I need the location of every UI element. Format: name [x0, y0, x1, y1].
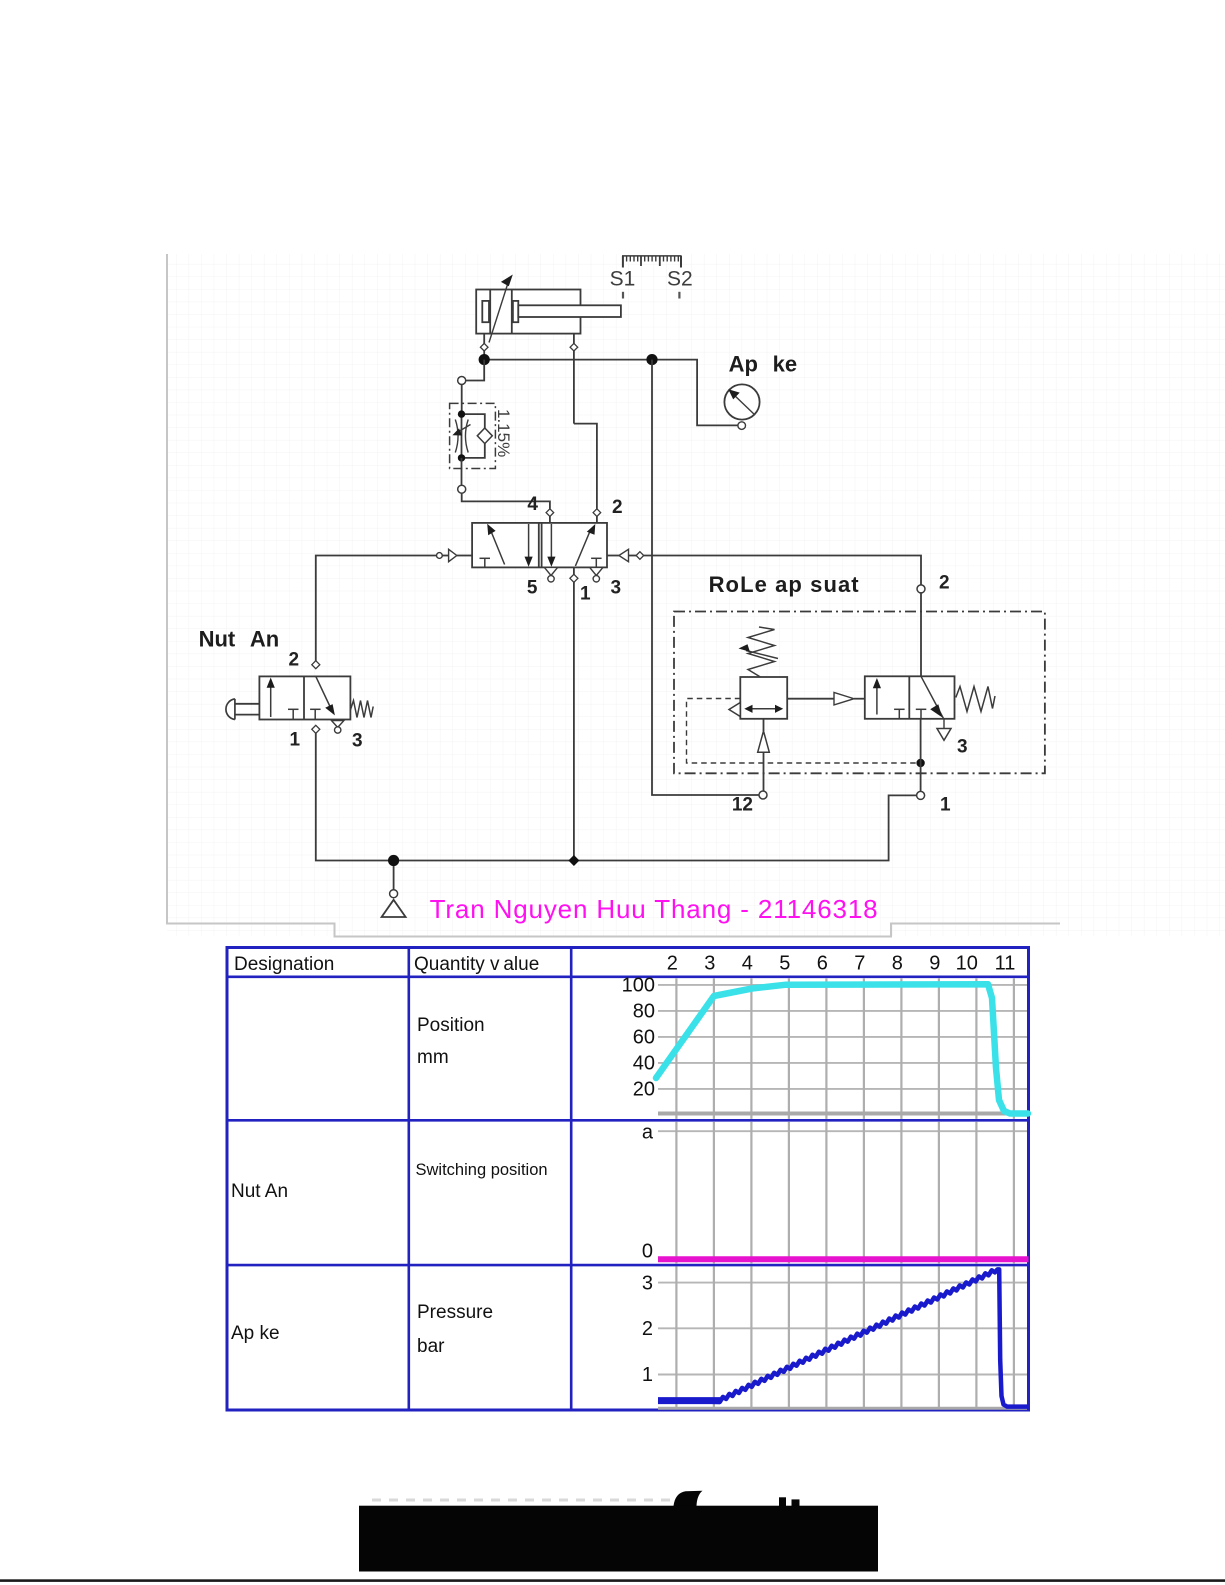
wire: bus down-left into flow control	[465, 360, 484, 381]
distance ruler	[622, 255, 682, 257]
wire: main bus to gauge branch	[484, 360, 738, 426]
svg-text:3: 3	[352, 731, 363, 752]
svg-text:5: 5	[527, 578, 538, 599]
svg-text:4: 4	[527, 494, 538, 515]
svg-text:60: 60	[633, 1027, 655, 1049]
wire: cylinder right port down	[573, 334, 575, 424]
exhaust port 3 Nut An	[331, 721, 344, 728]
wire: RoLe valve bottom to port 1	[920, 719, 922, 792]
3/2 valve of RoLe	[865, 676, 955, 719]
5/2-way impulse valve	[472, 523, 607, 568]
one-way flow control valve 1.15%	[450, 403, 496, 468]
svg-text:80: 80	[633, 1001, 655, 1023]
svg-text:10: 10	[956, 953, 978, 975]
port 2 circle RoLe	[917, 585, 925, 593]
wire: flow control to valve port 4	[462, 493, 550, 509]
svg-text:Nut An: Nut An	[231, 1181, 288, 1202]
port diamond cylinder right	[570, 343, 578, 351]
svg-text:2: 2	[612, 497, 623, 518]
exhaust port 3	[590, 567, 603, 575]
svg-text:9: 9	[929, 953, 940, 975]
svg-text:1: 1	[642, 1364, 653, 1386]
port circle flow-control top	[458, 377, 466, 385]
return spring Nut An	[350, 701, 373, 718]
svg-text:4: 4	[742, 953, 753, 975]
cylinder 1A (double-acting)	[476, 275, 621, 343]
svg-text:0: 0	[642, 1241, 653, 1263]
svg-text:2: 2	[667, 953, 678, 975]
svg-text:Switching position: Switching position	[416, 1161, 548, 1179]
censored footer block	[372, 1499, 381, 1502]
svg-text:12: 12	[732, 795, 753, 816]
svg-text:1: 1	[290, 730, 301, 751]
svg-text:3: 3	[642, 1273, 653, 1295]
wire: Nut An port 2 up to left pilot	[316, 556, 437, 669]
svg-text:2: 2	[289, 650, 300, 671]
chart gridlines row2	[658, 1122, 1027, 1264]
svg-text:mm: mm	[417, 1047, 449, 1068]
svg-text:a: a	[642, 1122, 654, 1144]
svg-text:Designation: Designation	[234, 954, 334, 975]
junction node air supply	[388, 855, 399, 866]
svg-text:1: 1	[940, 795, 951, 816]
svg-text:S2: S2	[667, 268, 693, 291]
port 1 diamond Nut An	[312, 725, 320, 733]
svg-text:2: 2	[939, 573, 950, 594]
sequence valve pilot element	[729, 627, 787, 719]
pressure curve (blue)	[658, 1269, 1029, 1406]
port 1 circle RoLe	[917, 791, 925, 799]
svg-text:Pressure: Pressure	[417, 1302, 493, 1323]
push button actuator	[235, 703, 260, 705]
svg-text:2: 2	[642, 1318, 653, 1340]
position curve (cyan)	[656, 984, 1028, 1113]
schematic canvas border	[167, 254, 1060, 937]
svg-text:3: 3	[957, 737, 968, 758]
switching position line (magenta)	[658, 1256, 1029, 1262]
wire: cylinder left port down to bus	[483, 334, 485, 360]
wire: junction down to port 12	[652, 360, 760, 795]
pressure curve initial flat (blue)	[658, 1397, 720, 1404]
svg-text:Position: Position	[417, 1015, 485, 1036]
junction node on dashed feedback	[916, 759, 924, 767]
chart gridlines row3	[658, 1267, 1027, 1409]
svg-text:8: 8	[892, 953, 903, 975]
svg-text:3: 3	[704, 953, 715, 975]
wire: cylinder right port to valve port 2	[574, 424, 597, 509]
svg-text:20: 20	[633, 1079, 655, 1101]
exhaust port 5	[544, 567, 557, 575]
chart gridlines row1	[658, 978, 1027, 1119]
pilot signal arrow between elements	[787, 698, 834, 700]
svg-text:S1: S1	[610, 268, 636, 291]
svg-text:Ap ke: Ap ke	[729, 352, 797, 377]
left pilot of 5/2 valve	[437, 553, 443, 559]
svg-text:Tran Nguyen Huu Thang - 211463: Tran Nguyen Huu Thang - 21146318	[430, 894, 878, 924]
svg-text:40: 40	[633, 1053, 655, 1075]
port 2 diamond	[593, 509, 601, 517]
svg-text:1: 1	[580, 584, 591, 605]
table outer border	[227, 948, 1029, 1411]
bottom rule	[0, 1579, 1225, 1582]
right pilot of 5/2 valve	[607, 555, 619, 557]
wire: right pilot to RoLe port 2	[644, 556, 921, 586]
svg-text:Ap ke: Ap ke	[231, 1323, 280, 1344]
svg-text:100: 100	[622, 975, 655, 997]
black censor box	[359, 1506, 878, 1572]
port diamond cylinder left	[480, 343, 488, 351]
svg-text:RoLe ap suat: RoLe ap suat	[709, 572, 860, 597]
svg-text:Nut An: Nut An	[199, 627, 280, 652]
svg-text:bar: bar	[417, 1336, 445, 1357]
pilot triangle below sequence element	[763, 719, 765, 731]
t glyph tops	[779, 1497, 786, 1506]
svg-text:7: 7	[854, 953, 865, 975]
junction node at cylinder left port	[479, 354, 490, 365]
junction node at gauge/pilot branch	[646, 354, 657, 365]
svg-text:1.15%: 1.15%	[494, 409, 513, 457]
dash-dot enclosure	[674, 612, 1045, 774]
pressure gauge Ap ke	[724, 384, 759, 429]
port circle flow-control bottom	[458, 485, 466, 493]
svg-text:6: 6	[817, 953, 828, 975]
port 4 diamond	[546, 509, 554, 517]
exhaust port 3 RoLe	[943, 719, 945, 728]
port 2 diamond Nut An	[312, 661, 320, 669]
wire into flow control	[461, 384, 463, 414]
return spring RoLe 3/2	[956, 687, 995, 712]
svg-text:5: 5	[779, 953, 790, 975]
wire: Nut An port 1 to bottom bus	[316, 733, 917, 860]
svg-text:11: 11	[995, 953, 1016, 975]
svg-text:Quantity v alue: Quantity v alue	[414, 954, 539, 975]
port 12 circle	[759, 791, 767, 799]
festo f glyph top	[674, 1491, 703, 1506]
3/2 push-button valve Nut An	[259, 676, 350, 719]
dashed pilot feedback line	[687, 699, 917, 764]
port 1 diamond and wire to bus	[573, 567, 575, 860]
svg-text:3: 3	[611, 578, 622, 599]
junction node valve port 1 line	[568, 855, 579, 866]
compressed air supply	[393, 866, 395, 890]
